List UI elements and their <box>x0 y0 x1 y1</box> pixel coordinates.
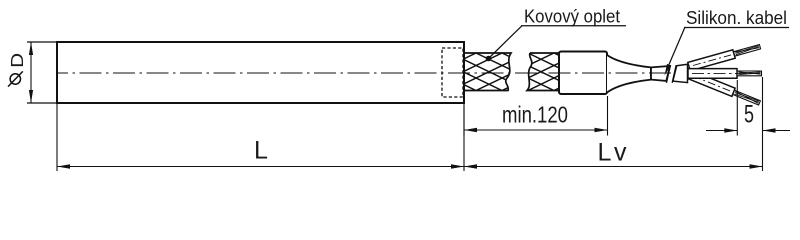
strain-relief cone <box>607 55 651 93</box>
dim min.120 <box>464 96 608 136</box>
ferrule sleeve <box>559 52 607 95</box>
svg-text:5: 5 <box>744 101 754 129</box>
braid segment 2 <box>372 53 632 91</box>
dims L and Lv <box>57 103 763 171</box>
braid segment 1 <box>372 53 632 91</box>
wire top <box>688 45 761 71</box>
svg-text:Silikon. kabel: Silikon. kabel <box>686 8 787 28</box>
svg-text:Kovový oplet: Kovový oplet <box>524 7 620 27</box>
cable break <box>666 65 670 83</box>
svg-text:min.120: min.120 <box>502 102 568 128</box>
wire bottom <box>687 70 760 105</box>
cable jacket end piece <box>673 64 688 82</box>
dim 5 <box>706 77 790 171</box>
leader: Silikon. kabel <box>665 8 790 76</box>
body edge extension lines (left, for dia dim) <box>27 41 57 43</box>
svg-text:D: D <box>7 53 27 68</box>
cable neck <box>651 66 670 81</box>
leader: Kovovy oplet <box>486 7 626 62</box>
dim phi-D <box>7 42 33 103</box>
internal plug (hidden, dashed) <box>442 48 463 97</box>
centerline <box>57 72 688 74</box>
wire middle <box>688 69 762 79</box>
heater body <box>57 42 464 103</box>
svg-text:L: L <box>254 137 268 165</box>
